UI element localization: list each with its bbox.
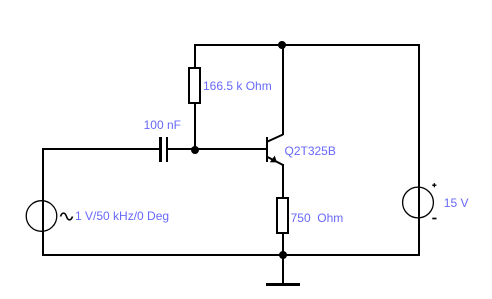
transistor Q1 emitter diagonal: [267, 157, 284, 166]
wire R1 top stub: [194, 44, 196, 67]
value label 15 V: [444, 197, 469, 209]
transistor Q1 base bar: [266, 137, 268, 162]
wire input to capacitor: [42, 148, 159, 150]
ac source V1 tilde: [61, 213, 73, 220]
resistor R2 body 750: [276, 197, 289, 234]
wire right vertical: [418, 44, 420, 256]
capacitor C1 right plate: [166, 137, 169, 162]
wire bottom rail: [42, 254, 420, 256]
value label 100 nF: [144, 119, 181, 131]
wire R1 bottom stub: [194, 104, 196, 150]
wire left vertical: [42, 148, 44, 256]
wire top rail: [194, 44, 420, 46]
ac source V1 circle: [26, 201, 57, 232]
wire collector vertical: [282, 44, 284, 135]
node junction top: [278, 41, 286, 49]
value label 1 V/50 kHz/0 Deg: [75, 210, 169, 222]
transistor Q1 emitter arrow: [270, 156, 277, 163]
resistor R1 body 166.5k: [188, 67, 201, 104]
node junction base: [191, 146, 199, 154]
transistor Q1 collector diagonal: [267, 135, 284, 143]
value label 166.5 k Ohm: [203, 80, 272, 92]
wire R2 bottom stub: [282, 234, 284, 256]
part label Q2T325B: [285, 145, 336, 157]
wire ground stub: [282, 256, 284, 283]
wire emitter vertical: [282, 164, 284, 197]
dc source V2 circle: [403, 187, 434, 218]
capacitor C1 left plate: [159, 137, 162, 162]
dc source V2 plus: [432, 183, 436, 187]
ground bar: [266, 283, 300, 286]
node junction ground: [279, 251, 287, 259]
value label 750 Ohm: [291, 212, 344, 224]
dc source V2 minus: [432, 218, 436, 220]
wire capacitor to base: [168, 148, 266, 150]
